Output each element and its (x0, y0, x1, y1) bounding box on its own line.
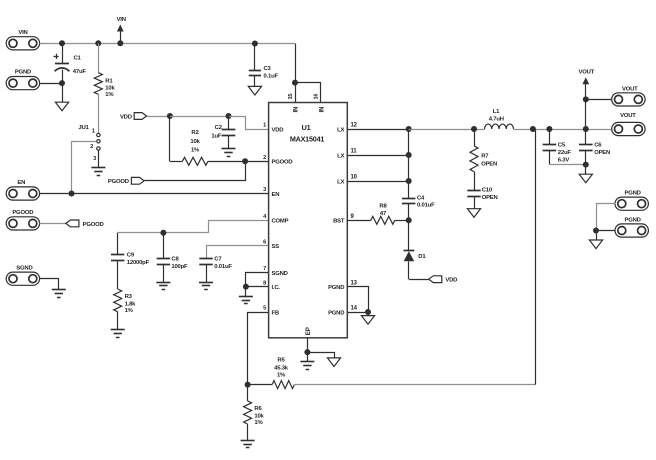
svg-text:45.3k: 45.3k (274, 365, 289, 371)
svg-text:10k: 10k (190, 139, 200, 145)
svg-text:0.01uF: 0.01uF (417, 203, 435, 209)
wire PGOOD connector to tag (40, 223, 66, 225)
ground SGND pins 7-8 (239, 296, 253, 298)
wire pins to ground (245, 287, 247, 297)
node IN split (292, 80, 298, 86)
wire VDD tag to node (147, 116, 170, 118)
svg-text:VDD: VDD (120, 114, 132, 120)
svg-text:L1: L1 (493, 109, 500, 115)
node VOUT-C5 (546, 126, 552, 132)
svg-text:JU1: JU1 (78, 125, 89, 131)
svg-text:13: 13 (351, 280, 358, 286)
ground SGND at EP (300, 361, 314, 363)
resistor R7 OPEN (474, 129, 476, 146)
capacitor C8 100pF (163, 233, 165, 259)
wire pin10 LX (347, 181, 408, 183)
node VIN-flag (117, 40, 123, 46)
wire R5 to output sense (295, 384, 536, 386)
ground PGND below C3 (248, 86, 261, 95)
node VOUT conn1 (583, 96, 589, 102)
svg-text:6.3V: 6.3V (558, 158, 570, 164)
node VOUT-FB (530, 126, 536, 132)
svg-text:0.01uF: 0.01uF (214, 264, 232, 270)
capacitor C2 1uF (228, 116, 230, 129)
capacitor C3 0.1uF (254, 44, 256, 70)
svg-text:LX: LX (337, 127, 344, 133)
svg-text:SGND: SGND (16, 265, 32, 271)
node LX12 (406, 126, 412, 132)
svg-text:PGOOD: PGOOD (83, 222, 104, 228)
svg-text:R7: R7 (481, 154, 489, 160)
svg-text:3: 3 (263, 187, 266, 193)
svg-text:C8: C8 (171, 257, 179, 263)
svg-text:PGND: PGND (624, 217, 640, 223)
svg-text:MAX15041: MAX15041 (290, 134, 325, 143)
node LX10 (406, 178, 412, 184)
tag PGOOD to pin2 (131, 177, 144, 184)
diode D1 (404, 250, 415, 252)
ground PGND at EP (327, 358, 340, 367)
wire C1 to ground (62, 83, 64, 102)
svg-text:PGND: PGND (328, 310, 344, 316)
svg-text:1%: 1% (191, 147, 200, 153)
resistor R1 10k (98, 43, 100, 72)
node VIN-C1 (59, 40, 65, 46)
node VIN-C3 (252, 41, 258, 47)
svg-text:VOUT: VOUT (579, 69, 595, 75)
wire EN line (40, 193, 269, 195)
svg-text:IN: IN (318, 106, 325, 113)
inductor L1 4.7uH (485, 124, 514, 129)
ground SGND below C8 (156, 282, 170, 284)
svg-text:100pF: 100pF (171, 264, 188, 270)
ground PGND output caps (579, 174, 592, 183)
svg-text:R1: R1 (105, 79, 113, 85)
wire D1 to VDD tag (409, 279, 429, 281)
wire pin16 branch (296, 83, 321, 103)
node pin7-pin8 (243, 284, 249, 290)
svg-text:VOUT: VOUT (620, 113, 636, 119)
resistor R6 10k (247, 385, 249, 401)
svg-text:C3: C3 (264, 66, 272, 72)
svg-text:1uF: 1uF (211, 133, 221, 139)
svg-text:2: 2 (90, 144, 93, 150)
svg-text:SGND: SGND (272, 271, 288, 277)
svg-text:VIN: VIN (117, 17, 126, 23)
wire VOUT arrow stem (585, 99, 587, 129)
node C5-C6 ground (583, 162, 589, 168)
svg-text:47: 47 (380, 211, 387, 217)
wire LX bus (408, 129, 410, 198)
wire VIN connector to rail (40, 43, 62, 45)
wire FB vertical to VOUT rail (535, 129, 537, 385)
wire FB net (248, 313, 269, 385)
svg-text:1: 1 (92, 129, 95, 135)
resistor R8 47 (347, 220, 371, 222)
svg-text:VOUT: VOUT (622, 87, 638, 93)
wire JU1 pin2 to EN net (72, 142, 97, 194)
svg-text:IN: IN (292, 106, 299, 113)
wire VDD to pin1 VDD (229, 117, 269, 130)
capacitor C10 OPEN (467, 190, 480, 192)
wire JU1 pin3 to ground (98, 150, 100, 168)
wire pin14 PGND (347, 312, 368, 314)
wire PGND conns to ground (596, 231, 598, 241)
node FB-R5-R6 (245, 382, 251, 388)
svg-text:PGOOD: PGOOD (12, 210, 33, 216)
connector J-VOUT 2 (612, 122, 645, 135)
ground PGND below C1 (55, 102, 68, 111)
svg-text:C7: C7 (214, 257, 222, 263)
svg-text:47uF: 47uF (73, 69, 87, 75)
svg-text:SS: SS (272, 244, 280, 250)
capacitor C4 0.01uF (402, 198, 415, 200)
tag VDD at D1 (429, 276, 442, 283)
node C1 bottom (59, 80, 65, 86)
capacitor C6 OPEN (585, 129, 587, 145)
wire pin12 LX (347, 129, 408, 131)
resistor R2 10k (169, 116, 171, 161)
ground PGND below C10 (467, 209, 480, 218)
capacitor C9 12000pF (117, 233, 119, 255)
svg-text:15: 15 (288, 94, 294, 100)
jumper JU1 (97, 133, 100, 136)
svg-text:2: 2 (263, 155, 266, 161)
svg-text:5: 5 (263, 306, 266, 312)
capacitor C7 0.01uF (207, 246, 269, 259)
node L1-R7 (471, 126, 477, 132)
svg-text:1: 1 (263, 123, 266, 129)
wire VDD node to C2 (170, 116, 229, 118)
wire pin8 IC (246, 286, 269, 288)
svg-text:R8: R8 (379, 204, 387, 210)
svg-text:LX: LX (337, 153, 344, 159)
svg-text:D1: D1 (418, 254, 426, 260)
ground SGND connector (52, 289, 66, 291)
svg-text:BST: BST (333, 219, 345, 225)
svg-text:PGND: PGND (15, 70, 31, 76)
svg-text:COMP: COMP (272, 219, 289, 225)
ground SGND below C7 (199, 282, 213, 284)
svg-text:11: 11 (351, 149, 358, 155)
svg-text:1%: 1% (277, 373, 286, 379)
ground PGND pins 13-14 (361, 316, 374, 325)
node VDD split (167, 113, 173, 119)
node pin2 junction (242, 158, 248, 164)
wire PGOOD tag to pin2 (145, 162, 246, 181)
wire pin13 PGND (348, 287, 369, 313)
svg-text:12000pF: 12000pF (127, 260, 150, 266)
wire rail corner down to pin15 (295, 44, 297, 103)
tag VDD input (134, 113, 146, 120)
wire pin2 stub (245, 161, 269, 163)
ground SGND below R3 (111, 329, 125, 331)
node EP (304, 349, 310, 355)
svg-text:1%: 1% (125, 308, 134, 314)
connector J-VOUT 1 (612, 93, 645, 106)
connector J-PGND top (6, 77, 39, 90)
svg-text:PGOOD: PGOOD (272, 160, 293, 166)
svg-text:VIN: VIN (18, 30, 27, 36)
connector J-PGND out 2 (615, 224, 648, 237)
svg-text:R6: R6 (254, 406, 262, 412)
svg-text:VDD: VDD (445, 278, 457, 284)
node LX11 (406, 152, 412, 158)
connector J-EN (6, 187, 39, 200)
wire COMP net (118, 221, 269, 233)
svg-text:EP: EP (305, 327, 312, 335)
wire pin7 SGND (246, 273, 269, 287)
resistor R5 45.3k (248, 384, 273, 386)
svg-text:10: 10 (351, 175, 358, 181)
wire pins to PGND gnd (368, 312, 370, 316)
wire PGND conn 1 (597, 204, 616, 231)
wire PGND connector to C1 (40, 83, 62, 85)
svg-text:PGND: PGND (328, 285, 344, 291)
svg-text:VDD: VDD (272, 127, 284, 133)
svg-text:OPEN: OPEN (594, 150, 610, 156)
svg-text:C5: C5 (558, 142, 566, 148)
wire SGND connector to ground (40, 279, 59, 290)
svg-text:1%: 1% (254, 420, 263, 426)
connector J-SGND (6, 272, 39, 285)
svg-text:R2: R2 (191, 130, 199, 136)
power flag VOUT (582, 77, 589, 84)
wire to VOUT connector 1 (586, 99, 612, 101)
svg-text:14: 14 (351, 306, 358, 312)
op-amp U1 MAX15041 box (269, 103, 348, 338)
svg-text:EN: EN (17, 180, 25, 186)
svg-text:0.1uF: 0.1uF (264, 74, 279, 80)
svg-text:6: 6 (263, 240, 266, 246)
svg-text:16: 16 (313, 94, 319, 100)
svg-text:8: 8 (263, 280, 266, 286)
svg-text:C9: C9 (127, 252, 135, 258)
connector J-PGND out 1 (615, 197, 648, 210)
wire C5-C6 join (549, 164, 585, 166)
svg-text:PGND: PGND (624, 191, 640, 197)
connector J-VIN (6, 37, 39, 50)
ground SGND below JU1 (91, 167, 105, 169)
svg-text:12: 12 (351, 123, 358, 129)
svg-text:4.7uH: 4.7uH (489, 116, 504, 122)
svg-text:FB: FB (272, 310, 279, 316)
svg-text:R3: R3 (125, 294, 133, 300)
wire EP to ground (307, 338, 309, 352)
svg-text:C10: C10 (482, 188, 493, 194)
svg-text:OPEN: OPEN (481, 162, 497, 168)
node COMP-C8 (160, 230, 166, 236)
svg-text:1%: 1% (105, 92, 114, 98)
node VDD-C2 (226, 113, 232, 119)
svg-text:1.8k: 1.8k (125, 302, 137, 308)
node VIN-R1 (95, 40, 101, 46)
capacitor C5 22uF (549, 129, 551, 145)
svg-text:OPEN: OPEN (482, 195, 498, 201)
wire VIN top rail (62, 43, 295, 45)
svg-text:3: 3 (93, 156, 96, 162)
node pin13-14 (365, 309, 371, 315)
node VOUT-C6 (583, 126, 589, 132)
capacitor C1 47uF polarized (62, 43, 64, 63)
connector J-PGOOD (6, 217, 39, 230)
svg-text:EN: EN (272, 192, 280, 198)
svg-text:C4: C4 (417, 195, 425, 201)
svg-text:R5: R5 (277, 358, 285, 364)
svg-text:10k: 10k (254, 413, 264, 419)
svg-text:7: 7 (263, 266, 266, 272)
ground PGND connectors (589, 240, 602, 249)
wire EP to PGND (308, 353, 335, 358)
ground SGND below R6 (241, 440, 255, 442)
svg-text:C2: C2 (215, 125, 223, 131)
svg-text:C1: C1 (74, 55, 82, 61)
node BST-C4 (406, 217, 412, 223)
node PGND conns (593, 228, 599, 234)
node EN-JU1 (69, 191, 75, 197)
wire to output ground (585, 165, 587, 175)
wire EP down (307, 352, 309, 362)
wire pin11 LX (347, 155, 408, 157)
svg-text:PGOOD: PGOOD (108, 179, 129, 185)
resistor R3 1.8k (114, 289, 122, 312)
svg-text:C6: C6 (594, 142, 602, 148)
svg-text:LX: LX (337, 179, 344, 185)
wire L1 to VOUT (514, 129, 613, 131)
svg-text:U1: U1 (302, 123, 311, 132)
power flag VIN (117, 25, 124, 32)
svg-text:I.C.: I.C. (272, 285, 281, 291)
svg-text:10k: 10k (105, 86, 115, 92)
svg-text:22uF: 22uF (558, 150, 572, 156)
wire PGND conn 2 (596, 230, 615, 232)
tag PGOOD output (66, 220, 79, 227)
wire LX rail to L1 (409, 129, 485, 131)
ground SGND below C2 (222, 148, 236, 150)
